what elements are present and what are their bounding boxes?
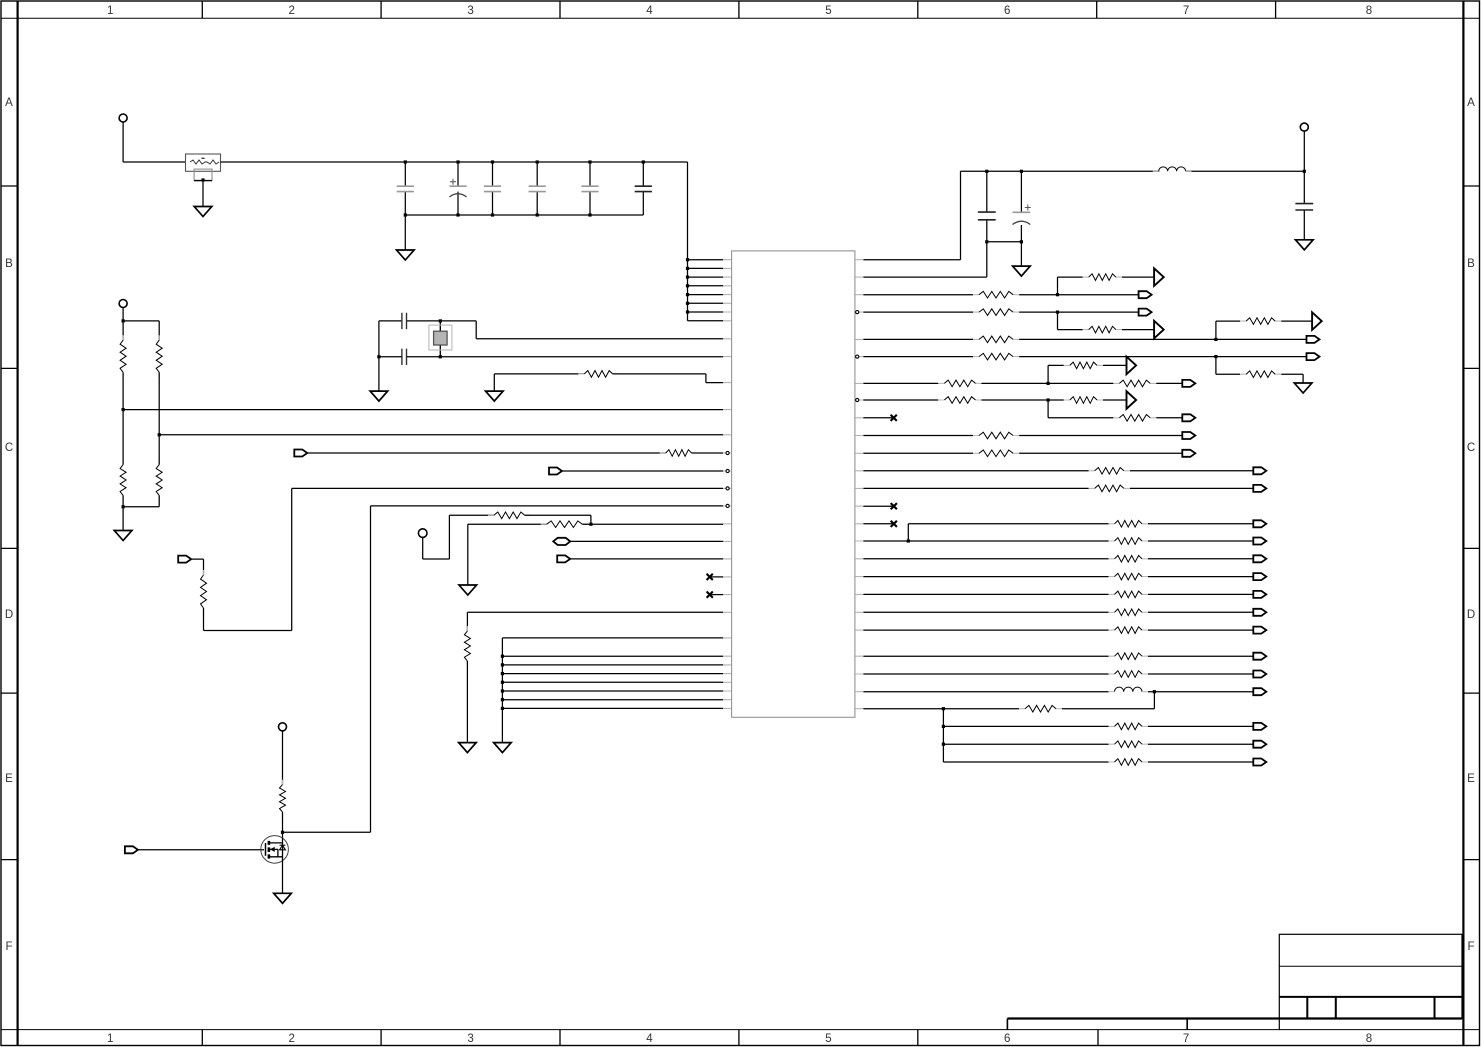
wire U1 to R10 [467,612,723,631]
wire TP2 to divider [123,308,159,321]
resistor R28 [1089,470,1130,472]
wire R5 to U1 [613,374,723,383]
svg-text:8: 8 [1366,5,1372,17]
svg-text:A: A [5,97,13,109]
wire XTAL net bottom [379,357,723,391]
svg-text:1: 1 [107,5,113,17]
svg-text:F: F [1467,941,1474,953]
capacitor C2 [449,179,466,197]
wire row [943,743,1253,745]
wire aux net [908,524,1253,541]
pin bubble [856,398,859,401]
ground G3 [370,391,388,401]
wire row [863,692,1253,709]
capacitor C5 [581,186,598,191]
wire row 5 [863,321,1312,339]
svg-text:D: D [5,609,13,621]
svg-text:6: 6 [1004,5,1010,17]
wire R8 to junction [525,515,591,524]
svg-text:3: 3 [467,1033,473,1045]
resistor R4 [158,460,160,501]
pin bubble [726,451,729,454]
off-page connector P5 [557,555,570,562]
off-page connector P4 [553,538,570,545]
pin bubble [726,504,729,507]
connector TP5 [1300,123,1308,131]
wire U1 row to R33 [863,576,1253,578]
svg-text:1: 1 [107,1033,113,1045]
connector TP4 [279,723,287,731]
connector TP1 [119,114,127,122]
IC U1 [723,251,863,717]
resistor R6 [660,452,698,454]
resistor R14 [973,311,1019,313]
resistor R39 [1019,708,1062,710]
wire U1 row to R35 [863,611,1253,613]
wire cap bottom rail [863,242,1021,277]
wire P6 to Q1 gate [138,849,264,851]
wire power bus to U1 pins [688,162,724,321]
no-connect X4 [863,505,893,507]
resistor R21 [1113,382,1156,384]
resistor R1 [122,321,124,340]
svg-text:5: 5 [825,1033,831,1045]
no-connect X5 [863,523,893,525]
off-page connector [1307,353,1320,360]
wire node A to U1 [123,409,723,411]
resistor R22 [1064,364,1103,366]
resistor R34 [1109,593,1149,595]
resistor R20 [938,382,981,384]
clock marker [1154,321,1164,339]
off-page connector [1182,380,1195,387]
svg-text:B: B [5,258,13,270]
off-page connector P6 [125,846,138,853]
resistor R15 [1083,329,1122,331]
off-page connector [1182,450,1195,457]
off-page connector [1139,291,1152,298]
svg-text:B: B [1467,258,1475,270]
wire U1 row to R32 [863,558,1253,560]
wire P4 to U1 [570,540,723,542]
wire fuse to rail [221,161,688,163]
resistor R38 [1109,673,1149,675]
wire dividers to ground [123,495,159,530]
pin bubble [856,355,859,358]
wire row [863,540,1253,542]
capacitor C1 [397,186,414,191]
svg-text:8: 8 [1366,1033,1372,1045]
wire TP3 to R8 [423,515,494,559]
resistor R13 [1083,276,1122,278]
wire fuse tap to ground [202,181,204,207]
ground G4 [486,391,504,401]
wire R7 to U1 [204,488,724,630]
off-page connector [1253,723,1266,730]
no-connect X3 [863,417,893,419]
resistor R11 [282,780,284,817]
pin bubble [856,311,859,314]
wire R1 to node [122,372,124,409]
svg-text:A: A [1467,97,1475,109]
off-page connector P2 [549,468,562,475]
capacitor C3 [484,186,501,191]
resistor R5 [578,373,618,375]
off-page connector [1182,414,1195,421]
pin bubble [726,469,729,472]
capacitor C6 [635,186,652,191]
transistor Q1 [261,836,289,864]
resistor R3 [122,460,124,501]
wire R10 to ground [466,661,468,743]
connector TP2 [119,300,127,308]
clock marker [1312,312,1322,330]
wire P2 to U1 [563,470,724,472]
ground G6 [459,585,477,595]
wire row [863,435,1182,437]
svg-text:E: E [5,773,13,785]
resistor R10 [466,626,468,666]
wire P5 to U1 [571,558,723,560]
resistor R42 [1109,761,1149,763]
ground G12 [1294,383,1312,393]
ground G11 [1296,240,1314,250]
wire U1 row to R34 [863,593,1253,595]
wire G4 to R5 [494,374,584,391]
pin bubble [726,487,729,490]
off-page connector [1253,671,1266,678]
wire row [943,725,1253,727]
crystal Y1 [429,321,452,357]
resistor R23 [938,399,981,401]
resistor R30 [1109,523,1149,525]
svg-text:E: E [1467,773,1475,785]
wire R6 to U1 [692,452,724,454]
resistor R19 [1240,373,1281,375]
clock marker [1127,391,1137,409]
off-page connector [1182,432,1195,439]
off-page connector [1253,520,1266,527]
off-page connector [1253,627,1266,634]
wire R2 to node [158,372,160,435]
off-page connector [1253,485,1266,492]
resistor R12 [973,294,1019,296]
off-page connector [1253,591,1266,598]
ground G2 [397,250,415,260]
wire Q1 drain net to U1 [371,506,724,832]
off-page connector [1253,538,1266,545]
resistor R7 [203,570,205,613]
resistor R35 [1109,611,1149,613]
wire row [863,487,1253,489]
resistor R24 [1064,399,1103,401]
wire row [943,761,1253,763]
wire P1 to R6 [308,452,666,454]
wire row [863,452,1182,454]
resistor R33 [1109,576,1149,578]
svg-text:6: 6 [1004,1033,1010,1045]
capacitor C8 [1020,171,1022,242]
off-page connector [1253,688,1266,695]
resistor R16 [973,338,1019,340]
resistor R41 [1109,743,1149,745]
resistor R8 [488,514,531,516]
svg-text:C: C [1467,442,1475,454]
svg-text:2: 2 [288,1033,294,1045]
wire R11 to Q1 drain [283,812,371,838]
capacitor C11 [402,349,407,365]
wire row [863,709,1154,762]
resistor R25 [1113,417,1156,419]
wire P3 via R7 to U1 [192,559,204,575]
svg-text:3: 3 [467,5,473,17]
wire row 4 [863,312,1154,330]
off-page connector [1253,467,1266,474]
svg-text:7: 7 [1183,1033,1189,1045]
off-page connector [1253,573,1266,580]
wire Q1 source to ground [282,860,284,893]
connector TP3 [418,529,427,538]
clock marker [1154,268,1164,286]
wire U1 row to R36 [863,629,1253,631]
svg-text:4: 4 [646,1033,653,1045]
wire row 6 [863,357,1306,383]
capacitor C4 [529,186,546,191]
wire ground bus to U1 pins [502,638,723,743]
ground G9 [274,893,292,903]
resistor R29 [1089,487,1130,489]
ground G8 [494,743,512,753]
fuse F1 [186,154,221,181]
resistor R26 [973,435,1019,437]
resistor R31 [1109,540,1149,542]
inductor L2 [1115,687,1143,692]
wire row 3 [863,277,1154,295]
wire node B to U1 [159,434,723,436]
wire 3V3 rail [863,131,1304,260]
no-connect X2 [710,594,723,596]
wire TP4 to R11 [282,731,284,785]
svg-text:4: 4 [646,5,653,17]
resistor R2 [158,321,160,340]
capacitor C7 [986,171,988,242]
resistor R9 [541,523,589,525]
off-page connector [1253,555,1266,562]
resistor R36 [1109,629,1149,631]
svg-text:7: 7 [1183,5,1189,17]
off-page connector [1253,741,1266,748]
capacitor C10 [402,313,407,329]
svg-text:D: D [1467,609,1475,621]
ground G1 [194,207,212,217]
resistor R17 [1240,320,1281,322]
ground G7 [459,743,477,753]
resistor R32 [1109,558,1149,560]
resistor R40 [1109,725,1149,727]
wire TP1 to fuse [123,122,185,162]
wire bottom rail to ground [404,215,406,250]
inductor L1 [1159,167,1186,171]
off-page connector [1253,609,1266,616]
wire U1 row to R37 [863,655,1253,657]
capacitor C9 [1303,171,1305,240]
ground G10 [1013,266,1031,276]
off-page connector [1253,653,1266,660]
wire U1 pin row XTAL net top [379,321,723,357]
off-page connector P3 [178,556,191,563]
resistor R18 [973,356,1019,358]
off-page connector P1 [294,450,307,457]
off-page connector [1139,309,1152,316]
wire row 7 [863,365,1182,383]
wire U1 row to R38 [863,673,1253,675]
wire cap leads and bottom rail [405,162,643,215]
resistor R37 [1109,655,1149,657]
wire ground leg to R9 [468,524,547,585]
svg-text:2: 2 [288,5,294,17]
svg-text:F: F [5,941,12,953]
ground G5 [114,531,132,541]
wire row 8 [863,400,1182,418]
wire row [863,470,1253,472]
wire to U1 pin [582,523,723,525]
off-page connector [1253,759,1266,766]
off-page connector [1307,336,1320,343]
clock marker [1127,357,1137,375]
resistor R27 [973,452,1019,454]
no-connect X1 [710,576,723,578]
svg-text:C: C [5,442,13,454]
svg-text:5: 5 [825,5,831,17]
